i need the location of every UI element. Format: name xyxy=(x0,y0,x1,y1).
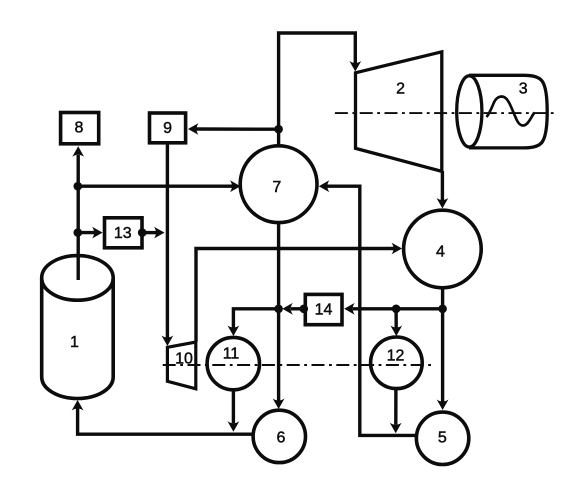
arrowhead onto drop line from box 9 xyxy=(154,227,165,239)
arrowhead into circle 11 top xyxy=(228,326,240,337)
svg-text:7: 7 xyxy=(272,179,281,196)
arrowhead into trapezoid 10 inlet xyxy=(162,336,174,347)
wire circle 7 bottom down to circle 6 xyxy=(277,223,280,401)
wire circle 11 bottom down to return line xyxy=(232,390,235,424)
arrowhead into circle 4 left side xyxy=(392,243,403,255)
node junction on steam line at tap to box 9 xyxy=(274,125,283,134)
wire feed line from riser to circle 7 xyxy=(78,184,232,187)
svg-text:10: 10 xyxy=(175,350,193,367)
node junction riser tee at feed line xyxy=(74,182,83,191)
svg-text:14: 14 xyxy=(315,301,333,318)
arrowhead into junction below circle 7 xyxy=(282,303,293,315)
box 13 xyxy=(105,218,143,248)
svg-text:2: 2 xyxy=(396,80,405,97)
node junction box 14 outlet xyxy=(300,305,309,314)
wire box 13 outlet to drop line xyxy=(142,231,156,234)
centerline: pump axis through 10, 11, 12 xyxy=(163,364,433,366)
svg-text:9: 9 xyxy=(163,120,172,137)
trapezoid 10 (expander) xyxy=(167,342,195,389)
wire junction across and down into circle 11 xyxy=(233,309,278,328)
turbine 2 (trapezoid) xyxy=(356,52,442,172)
wire riser tap into box 13 xyxy=(78,231,94,234)
arrowhead into box 14 right side xyxy=(344,303,355,315)
wire trapezoid 10 outlet up and across to circle 4 xyxy=(196,249,394,343)
wire drop line from box 9 to trapezoid 10 xyxy=(166,143,169,338)
node junction box 13 outlet xyxy=(138,228,147,237)
centerline: turbine-generator shaft axis xyxy=(335,112,556,114)
arrowhead into circle 7 right side xyxy=(319,180,330,192)
arrowhead into box 13 left side xyxy=(92,227,103,239)
svg-text:11: 11 xyxy=(223,346,240,363)
circle 4 (separator) xyxy=(404,210,482,288)
wire riser from cylinder 1 up to box 8 xyxy=(76,155,79,280)
wire steam line: circle 7 top up, over, down to turbine 2 inlet xyxy=(279,33,356,146)
box 9 xyxy=(150,113,186,143)
svg-text:5: 5 xyxy=(438,430,447,447)
arrowhead into circle 12 top xyxy=(390,326,402,337)
arrowhead into turbine 2 inlet xyxy=(349,61,361,72)
node junction junction above circle 12 xyxy=(392,305,401,314)
arrowhead into box 8 bottom xyxy=(72,146,84,157)
circle 12 (pump) xyxy=(371,337,423,389)
box 14 xyxy=(305,294,342,324)
wire turbine 2 exhaust down to circle 4 xyxy=(441,171,444,200)
svg-text:1: 1 xyxy=(70,334,79,351)
wire circle 12 bottom down to suction line xyxy=(394,389,398,425)
box 8 xyxy=(61,113,99,144)
circle 5 (vessel) xyxy=(416,412,468,464)
svg-text:8: 8 xyxy=(74,120,83,137)
svg-text:3: 3 xyxy=(519,80,528,97)
node junction riser tee at box 13 line xyxy=(74,228,83,237)
svg-text:12: 12 xyxy=(387,348,405,365)
svg-text:6: 6 xyxy=(277,430,286,447)
wire box 14 outlet stub to junction xyxy=(291,307,304,310)
arrowhead into circle 4 top xyxy=(437,198,449,209)
circle 11 (pump) xyxy=(207,337,259,389)
cylinder 1 (drum vessel) xyxy=(42,256,114,399)
node junction junction below circle 7 xyxy=(274,305,283,314)
arrowhead into box 9 right side xyxy=(188,123,199,135)
svg-text:13: 13 xyxy=(114,225,132,242)
wire branch from circle 4 drop line to box 14 xyxy=(353,307,443,310)
circle 7 (heat exchanger) xyxy=(240,146,317,223)
generator 3 (cylinder with sine wave) xyxy=(457,75,548,148)
arrowhead into circle 7 left side xyxy=(230,180,241,192)
arrowhead into circle 6 top xyxy=(273,399,285,410)
wire circle 4 bottom down to circle 5 xyxy=(441,288,444,402)
circle 6 (vessel) xyxy=(253,410,305,462)
wire branch down into circle 12 xyxy=(394,309,398,328)
wire tap line to box 9 xyxy=(196,127,279,131)
wire return line into circle 7 right, down and to circle 5 xyxy=(327,186,416,435)
svg-text:4: 4 xyxy=(436,244,445,261)
generator 3 sine wave xyxy=(487,97,535,126)
node junction junction below circle 4 xyxy=(438,305,447,314)
wire return line from circle 6 to cylinder 1 xyxy=(78,409,253,435)
arrowhead onto suction line of circle 5 xyxy=(390,423,402,434)
arrowhead into circle 5 top xyxy=(437,400,449,411)
arrowhead into cylinder 1 bottom xyxy=(72,400,84,411)
arrowhead onto return line to cylinder 1 xyxy=(228,421,240,432)
